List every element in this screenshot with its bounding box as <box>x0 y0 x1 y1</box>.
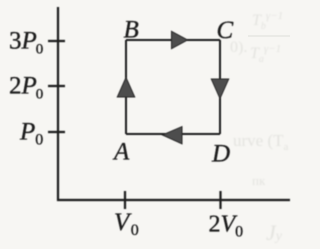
arrowhead right (B to C) <box>172 31 188 48</box>
svg-text:A: A <box>112 139 130 166</box>
tick P0 <box>48 131 65 133</box>
tick V0 <box>124 191 126 209</box>
tick 3P0 <box>48 40 65 42</box>
P axis (vertical) <box>57 7 59 201</box>
arrowhead down (C to D) <box>211 79 228 99</box>
svg-text:B: B <box>124 17 139 44</box>
process C to D (right side of cycle) <box>219 40 221 134</box>
faint fraction bar bleed-through <box>248 35 290 37</box>
process A to B (left side of cycle) <box>125 40 127 134</box>
process B to C (top side of cycle) <box>126 39 220 41</box>
V axis (horizontal) <box>57 199 290 201</box>
process D to A (bottom side of cycle) <box>126 133 220 135</box>
svg-text:D: D <box>211 141 230 168</box>
svg-text:urve (Ta: urve (Ta <box>233 131 289 153</box>
tick 2V0 <box>219 191 221 209</box>
faint bleed-through math text top-right <box>230 10 283 65</box>
arrowhead left (D to A) <box>163 127 183 144</box>
svg-text:пк: пк <box>252 173 266 188</box>
svg-text:C: C <box>217 17 234 44</box>
arrowhead up (A to B) <box>117 78 134 98</box>
tick 2P0 <box>48 85 65 87</box>
faint bleed-through word 'curve' right-middle <box>233 131 289 245</box>
